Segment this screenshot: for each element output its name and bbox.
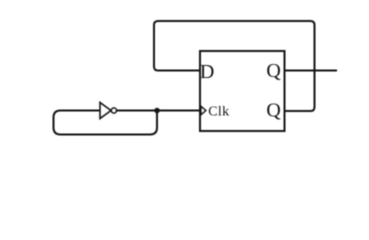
svg-text:D: D — [200, 61, 214, 83]
svg-text:Clk: Clk — [208, 104, 229, 119]
svg-text:Q: Q — [266, 60, 281, 82]
svg-text:Q: Q — [266, 100, 281, 122]
